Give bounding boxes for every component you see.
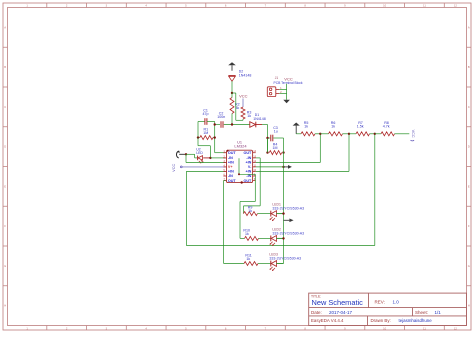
svg-text:LM324: LM324 bbox=[234, 144, 247, 149]
svg-text:1N4148: 1N4148 bbox=[239, 73, 252, 77]
svg-text:+IN: +IN bbox=[228, 170, 234, 174]
svg-text:1.0: 1.0 bbox=[393, 299, 400, 304]
svg-text:1k: 1k bbox=[304, 124, 308, 128]
node R1 right bbox=[214, 136, 216, 138]
resistor R3 1k bbox=[241, 107, 251, 119]
wire pin 12 to R6/R7 junction bbox=[256, 134, 349, 172]
svg-text:1k: 1k bbox=[246, 257, 250, 261]
svg-text:1k: 1k bbox=[245, 232, 249, 236]
svg-text:D1: D1 bbox=[255, 113, 259, 117]
svg-text:VCC: VCC bbox=[172, 164, 176, 172]
VCC net label (rotated) bbox=[172, 164, 182, 172]
svg-text:REV:: REV: bbox=[375, 299, 385, 304]
svg-text:-IN: -IN bbox=[228, 156, 233, 160]
op-amp U1 LM324 bbox=[223, 140, 256, 183]
svg-text:OUT: OUT bbox=[244, 179, 253, 183]
svg-text:LED1: LED1 bbox=[272, 203, 281, 207]
wire D2 cathode to junction bbox=[231, 81, 233, 93]
VCC net label right (rotated) bbox=[411, 130, 416, 141]
svg-text:1k: 1k bbox=[248, 209, 252, 213]
svg-text:1/1: 1/1 bbox=[435, 310, 442, 315]
power flag arrow at pin11 net bbox=[284, 165, 292, 169]
node U2 cathode junction bbox=[209, 157, 211, 159]
svg-text:-IN: -IN bbox=[246, 174, 251, 178]
node inside U1 bbox=[238, 173, 240, 175]
svg-text:333-2UYC/S530-A3: 333-2UYC/S530-A3 bbox=[269, 256, 301, 260]
wire pin 7 to R11 bbox=[224, 181, 244, 264]
wire D1 cathode to C3 branch bbox=[262, 125, 268, 153]
resistor R10 1k bbox=[243, 229, 270, 241]
diode D1 1N4148 bbox=[250, 113, 266, 127]
power flag VCC arrow above D2 bbox=[228, 62, 236, 71]
node C2 tap bbox=[214, 123, 216, 125]
node R4 left bbox=[266, 151, 268, 153]
wire C1/R1 left vertical bbox=[197, 122, 199, 138]
wire C3/R4 left vertical bbox=[267, 138, 269, 153]
power flag arrow at divider bbox=[293, 123, 300, 134]
LED U2 bbox=[196, 148, 210, 164]
svg-text:+IN: +IN bbox=[228, 161, 234, 165]
node R5/R6 bbox=[319, 133, 321, 135]
wire R1 left to LED junction bbox=[198, 138, 210, 158]
node mic junction bbox=[185, 153, 187, 155]
VCC net flag (above R3) bbox=[239, 94, 248, 107]
svg-text:OUT: OUT bbox=[244, 151, 253, 155]
svg-text:LED: LED bbox=[196, 151, 203, 155]
wires J1 pins to net bbox=[279, 84, 286, 100]
wire pin 5 to bottom rail bbox=[186, 171, 225, 245]
svg-text:J1: J1 bbox=[275, 76, 279, 80]
svg-text:OUT: OUT bbox=[228, 179, 237, 183]
svg-text:EasyEDA V4.4.4: EasyEDA V4.4.4 bbox=[311, 318, 344, 323]
wire C2 to D1 row bbox=[215, 124, 250, 126]
diode D2 1N4148 bbox=[228, 69, 251, 81]
resistor R7 1.5k bbox=[349, 121, 375, 136]
node LED2 cathode net bbox=[282, 237, 284, 239]
svg-text:1k: 1k bbox=[331, 124, 335, 128]
wire pin 9 to R9 bbox=[244, 158, 261, 214]
svg-text:1.5k: 1.5k bbox=[357, 124, 364, 128]
wire mic node to pin 3 bbox=[186, 154, 225, 162]
node LED1 cathode net bbox=[282, 212, 284, 214]
wire rail up to R7/R8 junction bbox=[374, 134, 376, 246]
svg-text:Drawn By:: Drawn By: bbox=[371, 318, 391, 323]
svg-text:V+: V+ bbox=[228, 165, 233, 169]
wire pin13 stub to R10 bbox=[240, 174, 255, 238]
connector J1 PCB Terminal Block bbox=[267, 76, 303, 96]
LED1 333-2UYC/S530-A3 bbox=[270, 203, 305, 222]
svg-text:333-2UYC/S530-A3: 333-2UYC/S530-A3 bbox=[272, 231, 304, 235]
svg-text:100n: 100n bbox=[217, 115, 225, 119]
wire pin 11 to C3/R4 net bbox=[256, 166, 284, 168]
resistor R9 1k bbox=[244, 206, 271, 216]
resistor R2 3k bbox=[230, 93, 240, 125]
svg-text:Date:: Date: bbox=[311, 310, 322, 315]
wire C3/R4 right vertical down to LEDs bbox=[283, 138, 285, 264]
bottom rail wire bbox=[186, 245, 374, 247]
resistor R6 1k bbox=[320, 121, 349, 136]
svg-text:+IN: +IN bbox=[245, 161, 251, 165]
microphone flag bbox=[176, 151, 186, 158]
ground flag below J1 bbox=[283, 100, 290, 103]
resistor R11 1k bbox=[244, 254, 271, 266]
svg-text:4.7k: 4.7k bbox=[383, 124, 390, 128]
svg-text:OUT: OUT bbox=[228, 151, 237, 155]
VCC net flag at J1 bbox=[284, 76, 293, 81]
svg-text:VCC: VCC bbox=[284, 76, 293, 81]
wire mic to U2 LED bbox=[186, 154, 197, 158]
svg-text:+IN: +IN bbox=[245, 170, 251, 174]
power flag arrow below LED1 bbox=[284, 219, 294, 223]
resistor R1 1M bbox=[198, 127, 215, 139]
svg-text:PCB Terminal Block: PCB Terminal Block bbox=[274, 81, 303, 85]
wire pin13 net across U1 body bbox=[239, 158, 255, 174]
wire pin 10 to R5/R6 junction bbox=[256, 134, 321, 163]
svg-text:-IN: -IN bbox=[246, 156, 251, 160]
wire C1/R1 right vertical to pin 1 bbox=[215, 122, 226, 153]
capacitor C3 1u bbox=[268, 126, 284, 141]
resistor R5 1k bbox=[296, 121, 320, 136]
svg-text:VCC: VCC bbox=[239, 94, 248, 99]
node R1 left bbox=[197, 136, 199, 138]
LED3 333-2UYC/S530-A3 bbox=[269, 253, 301, 271]
wire junction to R3 bottom bbox=[232, 93, 243, 120]
node C3 left bbox=[266, 137, 268, 139]
node junction D2/R2/R3 bbox=[231, 92, 233, 94]
svg-text:D2: D2 bbox=[239, 69, 243, 73]
svg-text:New Schematic: New Schematic bbox=[312, 298, 364, 307]
svg-text:Sheet:: Sheet: bbox=[415, 310, 428, 315]
svg-text:1k: 1k bbox=[247, 114, 251, 118]
svg-text:VCC: VCC bbox=[411, 130, 415, 138]
svg-text:333-2UYC/S530-A3: 333-2UYC/S530-A3 bbox=[272, 206, 304, 210]
svg-text:LED2: LED2 bbox=[272, 228, 281, 232]
svg-text:tejasmhaisdhune: tejasmhaisdhune bbox=[399, 318, 433, 323]
wire U2 to pin 2 bbox=[210, 157, 225, 159]
title block bbox=[309, 293, 467, 325]
node C2/R2/D1 bbox=[231, 123, 233, 125]
svg-text:1u: 1u bbox=[274, 129, 278, 133]
svg-text:1M: 1M bbox=[273, 146, 278, 150]
svg-text:2017-04-17: 2017-04-17 bbox=[329, 310, 353, 315]
node pin11 net bbox=[282, 166, 284, 168]
LED2 333-2UYC/S530-A3 bbox=[270, 228, 305, 246]
resistor R4 1M bbox=[269, 143, 281, 155]
svg-text:-IN: -IN bbox=[228, 174, 233, 178]
svg-text:1N4148: 1N4148 bbox=[253, 117, 266, 121]
capacitor C2 100n bbox=[217, 112, 225, 128]
resistor R8 4.7k bbox=[375, 121, 410, 136]
svg-text:1M: 1M bbox=[203, 131, 208, 135]
node R4 right bbox=[282, 151, 284, 153]
svg-text:LED3: LED3 bbox=[269, 253, 278, 257]
capacitor C1 47p bbox=[198, 108, 215, 124]
wire VCC label to pin 4 bbox=[182, 166, 225, 168]
node R6/R7 bbox=[348, 133, 350, 135]
node R7/R8 bbox=[374, 133, 376, 135]
svg-text:47p: 47p bbox=[203, 112, 209, 116]
